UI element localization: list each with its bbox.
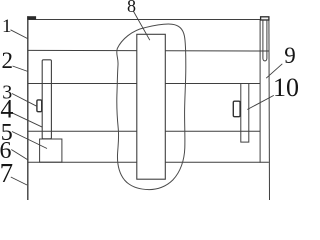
leader 1	[11, 30, 28, 39]
central core element 8 (white filled, occludes lines)	[137, 34, 166, 179]
leader 8	[133, 11, 150, 40]
node blob enclosure around center	[117, 24, 186, 190]
svg-text:1: 1	[2, 16, 12, 37]
cap top-left	[27, 16, 36, 20]
tall bracket element 10 right	[241, 84, 249, 143]
wire interior shelf line 3	[28, 130, 260, 132]
wire outer right edge	[268, 17, 271, 200]
rod element 9	[263, 20, 267, 61]
svg-text:9: 9	[284, 43, 296, 68]
leader 3	[12, 94, 37, 107]
svg-text:8: 8	[127, 0, 136, 16]
wire top edge of housing	[27, 19, 260, 21]
leader 4	[12, 113, 42, 127]
wire inner bottom plate	[28, 161, 269, 163]
wire interior shelf line 1	[28, 49, 269, 52]
wire inner right wall	[259, 20, 261, 163]
svg-text:7: 7	[0, 158, 13, 188]
svg-text:10: 10	[273, 73, 299, 102]
leader 10	[247, 95, 273, 109]
leader 7	[11, 177, 27, 185]
leader 6	[11, 150, 28, 161]
box element 5 bottom-left	[40, 139, 62, 162]
small block element 3	[37, 100, 42, 112]
leader 9	[266, 64, 282, 78]
wire interior shelf line 2	[28, 83, 260, 85]
wire left wall	[27, 16, 29, 200]
cap top-right	[261, 17, 269, 20]
small block left of element 10	[233, 101, 240, 117]
tall bracket element 2/4 left	[42, 60, 51, 139]
leader 5	[12, 132, 47, 149]
leader 2	[13, 66, 29, 72]
svg-text:4: 4	[0, 95, 13, 124]
svg-text:2: 2	[2, 48, 14, 73]
